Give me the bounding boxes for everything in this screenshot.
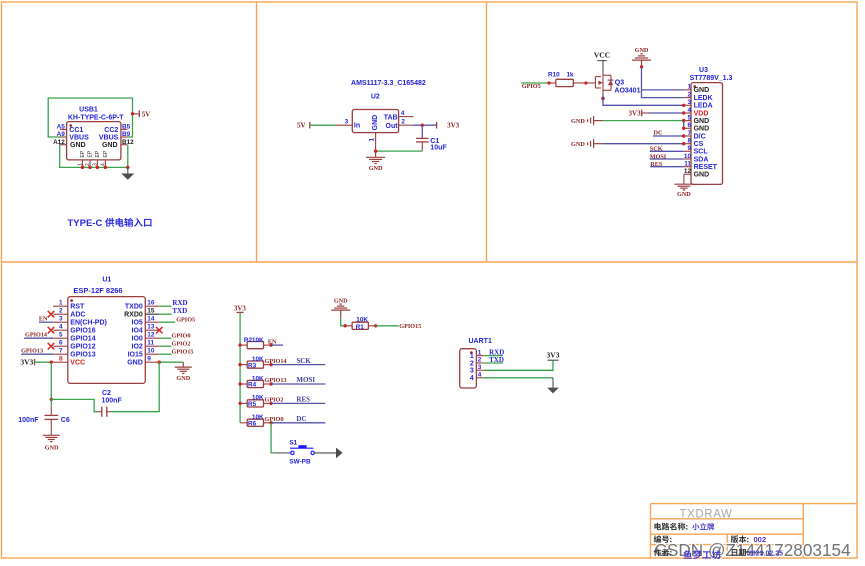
U3 pin 4 VDD [684, 112, 691, 114]
wire R6 to DC [271, 422, 325, 424]
frame divider vertical 2 [486, 2, 488, 262]
svg-text:10K: 10K [356, 317, 368, 324]
svg-text:A9: A9 [57, 131, 66, 138]
svg-text:RESET: RESET [694, 164, 718, 171]
svg-text:2: 2 [478, 357, 482, 364]
svg-text:SCL: SCL [694, 149, 709, 156]
svg-text:UART1: UART1 [469, 338, 492, 345]
U1 pin 13 IO4 [145, 329, 159, 331]
pin 3 In [335, 124, 352, 126]
svg-text:GND: GND [694, 118, 710, 125]
svg-text:B9: B9 [122, 131, 131, 138]
svg-text:3V3: 3V3 [447, 121, 460, 129]
svg-text:11: 11 [684, 161, 691, 168]
net label GPIO0 pin12 [159, 337, 171, 339]
row: author / date [654, 549, 672, 557]
svg-text:4: 4 [401, 110, 405, 117]
net label GPIO5 pin14 [159, 321, 175, 323]
svg-text:GND: GND [102, 142, 118, 149]
svg-text:ESP-12F 8266: ESP-12F 8266 [73, 286, 122, 295]
wire C2 to pin9 [112, 362, 160, 412]
U1 pin 5 GPIO14 [53, 337, 68, 339]
frame divider vertical 1 [256, 2, 258, 262]
svg-text:1k: 1k [567, 72, 575, 79]
svg-text:4: 4 [478, 372, 482, 379]
svg-text:2023.02.25: 2023.02.25 [748, 550, 783, 557]
svg-text:1: 1 [470, 353, 474, 360]
svg-text:In: In [354, 123, 360, 130]
svg-text:IO0: IO0 [132, 336, 143, 343]
svg-text:SW-PB: SW-PB [289, 458, 311, 465]
svg-text:GPIO2: GPIO2 [265, 397, 284, 404]
svg-text:S1: S1 [289, 440, 297, 447]
svg-text:USB1: USB1 [79, 107, 98, 114]
svg-text:TYPE-C: TYPE-C [68, 218, 103, 229]
resistor R6 10K [240, 422, 247, 424]
svg-text:A5: A5 [57, 124, 66, 131]
svg-text:U1: U1 [102, 276, 111, 283]
svg-text:ADC: ADC [70, 312, 85, 319]
svg-text:GND: GND [127, 360, 143, 367]
U1 pin 1 RST [53, 305, 68, 307]
svg-text:CC2: CC2 [104, 127, 118, 134]
svg-text:4: 4 [687, 107, 691, 114]
wire R5 to RES [271, 402, 325, 404]
wire R3 to SCK [271, 364, 325, 366]
svg-text:U2: U2 [371, 93, 380, 100]
ground triangle [547, 388, 559, 394]
ground U2 [366, 151, 385, 164]
svg-text:A12: A12 [53, 139, 65, 146]
svg-text:1: 1 [687, 84, 691, 91]
wire C1 to GND [376, 150, 423, 152]
svg-text:GND: GND [694, 87, 710, 94]
U3 pin 3 LEDA [684, 104, 691, 106]
regulator U2 body [352, 110, 398, 133]
pin A12 GND [60, 144, 67, 146]
svg-text:GND: GND [677, 191, 691, 198]
svg-text:GPIO16: GPIO16 [70, 328, 95, 335]
U3 pin 1 GND [684, 89, 691, 91]
wire pin4 to ground [483, 377, 553, 379]
svg-text:GPIO2: GPIO2 [172, 341, 191, 348]
svg-text:IO15: IO15 [128, 352, 143, 359]
svg-text:Q3: Q3 [615, 79, 624, 86]
pin B12 GND [121, 144, 128, 146]
svg-text:2: 2 [401, 119, 405, 126]
svg-text:SCK: SCK [296, 357, 311, 365]
U3 pin 7 D/C [684, 135, 691, 137]
svg-text:14: 14 [147, 315, 155, 322]
capacitor C1 [421, 125, 423, 138]
svg-text:GPIO5: GPIO5 [176, 316, 195, 323]
drain junction [601, 97, 605, 101]
svg-text:5V: 5V [142, 110, 151, 118]
svg-text:R10: R10 [548, 72, 560, 79]
module U1 body [68, 297, 146, 384]
svg-text:SDA: SDA [694, 156, 709, 163]
svg-text:EN(CH-PD): EN(CH-PD) [70, 320, 107, 327]
svg-text:5V: 5V [297, 121, 306, 129]
net label RXD [483, 355, 503, 357]
U3 pin 11 RESET [684, 166, 691, 168]
wire 5V to In [310, 124, 335, 126]
svg-text:2: 2 [85, 163, 91, 166]
svg-text:1: 1 [478, 349, 482, 356]
svg-text:GPIO13: GPIO13 [265, 377, 287, 384]
svg-text:GND: GND [70, 142, 86, 149]
connector UART1 body [460, 349, 477, 388]
svg-text:2: 2 [59, 307, 63, 314]
resistor R1 10K [344, 324, 347, 327]
svg-text:3: 3 [345, 118, 349, 125]
ground triangle [127, 167, 129, 173]
no-connect X [48, 343, 55, 350]
resistor R2 10K [238, 343, 241, 346]
wire pin3 to 3V3 [483, 360, 553, 370]
U1 pin 4 GPIO16 [53, 329, 68, 331]
svg-text:GND: GND [334, 298, 348, 305]
svg-text:6: 6 [59, 339, 63, 346]
svg-text:1: 1 [369, 138, 376, 142]
resistor R5 10K [238, 402, 241, 405]
svg-text:3: 3 [687, 99, 691, 106]
svg-text:EN: EN [268, 339, 277, 346]
pin 2 Out [399, 124, 414, 126]
row: circuit name [654, 523, 687, 531]
svg-text:CC1: CC1 [69, 127, 83, 134]
svg-text:10K: 10K [252, 337, 264, 344]
wire pin9 GND [159, 361, 183, 363]
svg-text:IO5: IO5 [132, 320, 143, 327]
resistor R3 10K [238, 363, 241, 366]
svg-text:3: 3 [93, 163, 99, 166]
svg-text:R4: R4 [248, 382, 257, 389]
svg-text:4: 4 [470, 375, 474, 382]
svg-text:100nF: 100nF [102, 398, 123, 405]
U3 pin 5 GND [684, 120, 691, 122]
svg-text:GND: GND [369, 165, 383, 172]
svg-text:10uF: 10uF [430, 145, 447, 152]
svg-text:TAB: TAB [384, 114, 398, 121]
svg-text:GPIO0: GPIO0 [172, 333, 191, 340]
svg-text:TXDRAW: TXDRAW [679, 508, 732, 520]
svg-text:16: 16 [147, 299, 155, 306]
pin B5 CC2 [121, 128, 128, 130]
svg-text:TXD: TXD [172, 307, 187, 315]
row: number / version [654, 535, 672, 543]
svg-text:EP: EP [103, 150, 109, 157]
UART1 pin 2 [476, 362, 483, 364]
svg-text:9: 9 [687, 145, 691, 152]
capacitor C6 [50, 399, 52, 406]
U1 pin 2 ADC [53, 313, 68, 315]
wire GND to R1 [341, 318, 344, 326]
svg-text:15: 15 [147, 307, 155, 314]
svg-text:EP: EP [88, 150, 94, 157]
U1 pin 7 GPIO13 [53, 353, 68, 355]
wire pin5-pin6 [683, 121, 685, 129]
svg-text:2: 2 [687, 91, 691, 98]
junction dots on ground rail [81, 166, 84, 169]
svg-text:C6: C6 [61, 417, 70, 424]
wire A12 to ground rail [60, 145, 128, 168]
capacitor C2 [97, 411, 101, 413]
ground pin12 [683, 174, 685, 184]
svg-text:RST: RST [70, 304, 85, 311]
svg-text:IO4: IO4 [132, 328, 143, 335]
svg-text:IO2: IO2 [132, 344, 143, 351]
svg-text:VDD: VDD [694, 110, 709, 117]
svg-text:1: 1 [78, 163, 84, 166]
pin A5 CC1 [60, 128, 67, 130]
svg-text:GPIO0: GPIO0 [265, 416, 284, 423]
svg-text:3V3: 3V3 [547, 351, 560, 360]
ground C6 [43, 435, 60, 441]
pin 4 TAB [399, 116, 414, 118]
wire R6 to switch [271, 423, 276, 453]
net label TXD pin15 [159, 313, 171, 315]
resistor R10 1k [547, 81, 550, 84]
svg-text:R3: R3 [248, 362, 257, 369]
svg-text:R6: R6 [248, 421, 257, 428]
connector USB1 body [67, 122, 121, 160]
wire 3V3 rail [239, 312, 241, 422]
U3 pin 6 GND [684, 127, 691, 129]
svg-text:RES: RES [296, 396, 310, 404]
svg-text:10: 10 [684, 153, 692, 160]
svg-text:VCC: VCC [594, 50, 610, 59]
net label TXD [483, 362, 503, 364]
UART1 pin 3 [476, 369, 483, 371]
wire switch to ground [314, 452, 336, 454]
svg-text:VBUS: VBUS [99, 134, 119, 141]
U1 pin 11 IO2 [145, 345, 159, 347]
U1 pin 14 IO5 [145, 321, 159, 323]
svg-text:9: 9 [147, 355, 151, 362]
svg-text:4: 4 [101, 163, 107, 166]
svg-text:8: 8 [59, 355, 63, 362]
svg-text:GND: GND [45, 444, 59, 451]
svg-text:EP: EP [95, 150, 101, 157]
svg-text:GND: GND [176, 375, 190, 382]
3V3 power flag [436, 122, 438, 129]
pin B9 VBUS [121, 136, 128, 138]
svg-text:3V3: 3V3 [20, 358, 33, 367]
svg-text:B12: B12 [122, 139, 134, 146]
U1 pin 9 GND [145, 361, 159, 363]
svg-text:B5: B5 [122, 124, 131, 131]
svg-text:3V3: 3V3 [234, 304, 247, 312]
svg-text:6: 6 [687, 122, 691, 129]
UART1 pin 4 [476, 377, 483, 379]
svg-text:100nF: 100nF [18, 417, 39, 424]
svg-text:AMS1117-3.3_C165482: AMS1117-3.3_C165482 [351, 80, 426, 87]
net label GPIO2 pin11 [159, 345, 171, 347]
U1 pin 16 TXD0 [145, 305, 159, 307]
no-connect X [156, 327, 163, 334]
svg-text:Out: Out [386, 123, 399, 130]
svg-text:U3: U3 [699, 67, 708, 74]
svg-text:EP: EP [80, 150, 86, 157]
U1 pin 3 EN(CH-PD) [53, 321, 68, 323]
svg-text:LEDA: LEDA [694, 103, 713, 110]
svg-text:5: 5 [59, 331, 63, 338]
wire R4 to MOSI [271, 383, 325, 385]
svg-text:KH-TYPE-C-6P-T: KH-TYPE-C-6P-T [68, 114, 124, 121]
svg-text:3: 3 [59, 315, 63, 322]
svg-text:GPIO12: GPIO12 [70, 344, 95, 351]
no-connect X [48, 311, 55, 318]
EP pins 1-4 [78, 150, 109, 167]
svg-text:GPIO14: GPIO14 [265, 358, 287, 365]
svg-text:12: 12 [147, 331, 155, 338]
svg-text:TXD0: TXD0 [125, 304, 143, 311]
svg-text:3V3: 3V3 [629, 110, 642, 118]
transistor Q3 AO3401 [595, 72, 613, 94]
svg-text:LEDK: LEDK [694, 95, 713, 102]
frame divider horizontal [2, 261, 858, 263]
svg-text:GND: GND [635, 47, 649, 54]
svg-text:8: 8 [687, 138, 691, 145]
switch S1 SW-PB [291, 451, 294, 454]
U3 pin 2 LEDK [684, 97, 691, 99]
svg-text:GND: GND [694, 172, 710, 179]
svg-text:12: 12 [684, 168, 692, 175]
U1 pin 6 GPIO12 [53, 345, 68, 347]
svg-text:GPIO15: GPIO15 [172, 349, 194, 356]
net label GPIO5 [521, 82, 549, 84]
wire Q3 drain to LEDA pin3 [603, 94, 684, 105]
svg-text:RXD: RXD [172, 299, 187, 307]
wire GND to pin1/pin2 [642, 67, 684, 98]
U1 pin 15 RXD0 [145, 313, 159, 315]
svg-text:GPIO15: GPIO15 [399, 323, 421, 330]
svg-text:GND: GND [694, 126, 710, 133]
wire gate [586, 82, 596, 84]
svg-text:13: 13 [147, 323, 155, 330]
svg-text:TXD: TXD [489, 356, 504, 364]
U3 pin 12 GND [684, 173, 691, 175]
svg-text:C2: C2 [102, 390, 111, 397]
pin A9 VBUS [60, 136, 67, 138]
U1 pin 12 IO0 [145, 337, 159, 339]
U1 pin 8 VCC [53, 361, 68, 363]
svg-text:ST7789V_1.3: ST7789V_1.3 [690, 75, 733, 82]
svg-text:11: 11 [147, 339, 154, 346]
wire 3V3 rail down [50, 362, 52, 399]
wire R1 to GPIO15 [376, 325, 399, 327]
svg-text:DC: DC [296, 415, 306, 423]
svg-text:VBUS: VBUS [69, 134, 89, 141]
5V power flag [131, 112, 134, 115]
wire R2 to EN [271, 344, 283, 346]
svg-text:R5: R5 [248, 401, 257, 408]
net label GPIO15 pin10 [159, 353, 171, 355]
U3 pin 10 SDA [684, 158, 691, 160]
wire to C2 [51, 399, 97, 411]
svg-text:5: 5 [687, 114, 691, 121]
svg-text:MOSI: MOSI [296, 376, 315, 384]
ground arrow right [336, 448, 343, 459]
svg-text:4: 4 [59, 323, 63, 330]
svg-text:GND: GND [372, 115, 379, 131]
net label RXD pin16 [159, 305, 171, 307]
ground right of U1 [175, 362, 192, 373]
svg-text:GPIO5: GPIO5 [522, 83, 541, 90]
pin 1 GND stub [375, 133, 377, 152]
svg-text:D/C: D/C [694, 133, 706, 140]
U3 pin 9 SCL [684, 150, 691, 152]
svg-text:2: 2 [470, 360, 474, 367]
svg-text:AO3401: AO3401 [614, 88, 640, 95]
svg-text:7: 7 [59, 347, 63, 354]
U1 pin 10 IO15 [145, 353, 159, 355]
wire Out to 3V3 [413, 124, 436, 126]
svg-text:3: 3 [478, 364, 482, 371]
svg-text:GND: GND [571, 118, 585, 125]
svg-text:R1: R1 [356, 324, 365, 331]
U3 pin 8 CS [684, 143, 691, 145]
svg-text:GPIO14: GPIO14 [70, 336, 95, 343]
svg-text:10: 10 [147, 347, 155, 354]
svg-text:GND: GND [571, 141, 585, 148]
no-connect X [48, 327, 55, 334]
svg-text:7: 7 [687, 130, 691, 137]
svg-text:GPIO13: GPIO13 [70, 352, 95, 359]
resistor R4 10K [238, 382, 241, 385]
UART1 pin 1 [476, 355, 483, 357]
svg-text:VCC: VCC [70, 360, 85, 367]
svg-text:3: 3 [470, 368, 474, 375]
svg-text:RXD0: RXD0 [124, 312, 143, 319]
svg-text:CS: CS [694, 141, 704, 148]
wire VBUS loop A9-B9 [48, 98, 132, 137]
svg-text:1: 1 [59, 299, 63, 306]
